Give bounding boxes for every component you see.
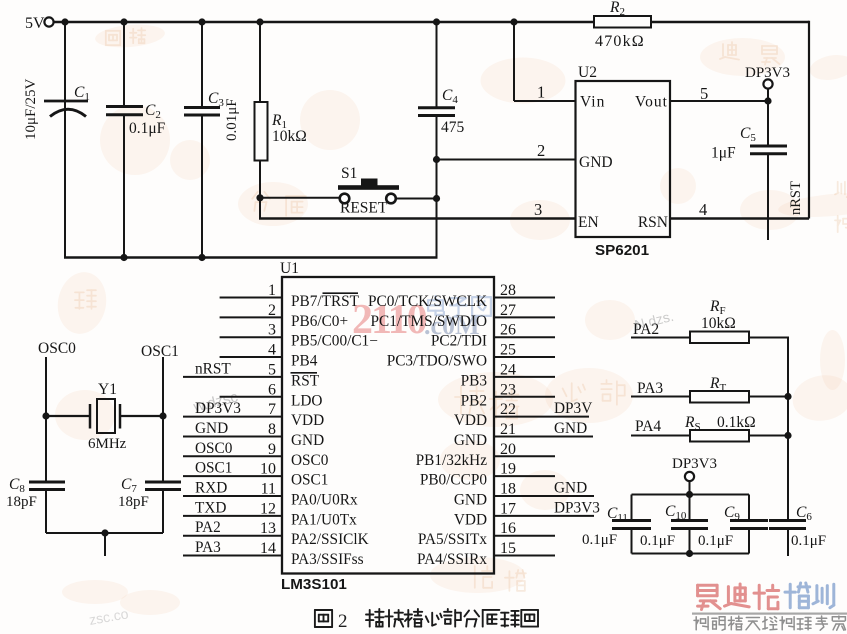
svg-text:1μF: 1μF (711, 145, 736, 162)
svg-text:PB7/TRST: PB7/TRST (291, 293, 360, 310)
wire bottom rail (64, 256, 438, 258)
svg-text:VDD: VDD (454, 412, 487, 429)
svg-text:PA2/SSIClK: PA2/SSIClK (291, 531, 369, 548)
node crystal gnd (101, 529, 108, 536)
svg-text:C1: C1 (74, 84, 90, 103)
caption: 图2 模块核心部分原理图 (315, 610, 332, 627)
svg-text:20: 20 (500, 441, 516, 458)
node rail-C2 (120, 18, 127, 25)
node bottomrail-C2 (120, 254, 127, 261)
svg-text:6MHz: 6MHz (88, 436, 127, 452)
wire OSC0 vertical (45, 357, 47, 482)
regulator U2 (576, 81, 671, 237)
svg-text:18: 18 (500, 481, 516, 498)
pin 1 PB7/TRST (220, 297, 282, 299)
pin 8 GND (183, 435, 282, 437)
pin 5 RST (183, 376, 282, 378)
capacitor C8 (29, 481, 65, 484)
svg-text:10kΩ: 10kΩ (701, 315, 736, 332)
svg-text:16: 16 (500, 520, 516, 537)
wire right edge drop (808, 21, 810, 219)
svg-text:2: 2 (268, 302, 276, 319)
svg-text:19: 19 (500, 461, 516, 478)
svg-text:R2: R2 (609, 0, 625, 18)
node S1-C4branch (433, 195, 440, 202)
node rail-C3 (198, 18, 205, 25)
wire cap bottom rail (632, 553, 750, 555)
node DP3V3-caprail (686, 491, 693, 498)
svg-text:PA0/U0Rx: PA0/U0Rx (291, 492, 358, 509)
svg-text:4: 4 (268, 342, 276, 359)
svg-text:PA4/SSIRx: PA4/SSIRx (417, 551, 487, 568)
wire pin1 Vin (513, 22, 515, 101)
svg-text:PA3: PA3 (637, 380, 663, 397)
svg-text:0.1μF: 0.1μF (129, 120, 166, 137)
svg-text:10μF/25V: 10μF/25V (23, 78, 39, 140)
svg-text:5: 5 (268, 361, 276, 378)
ground stub (104, 533, 106, 556)
svg-text:PA4: PA4 (635, 418, 661, 435)
svg-text:DP3V3: DP3V3 (672, 456, 717, 472)
resistor RT (690, 391, 749, 403)
svg-text:18pF: 18pF (6, 494, 37, 510)
svg-text:22: 22 (500, 401, 516, 418)
svg-text:Vin: Vin (580, 94, 605, 111)
svg-text:5V: 5V (25, 15, 45, 32)
svg-text:OSC1: OSC1 (195, 460, 232, 477)
svg-text:9: 9 (268, 441, 276, 458)
svg-text:TXD: TXD (195, 499, 226, 516)
pin 10 OSC1 (183, 475, 282, 477)
node C4-gnd2 (433, 156, 440, 163)
pin 18 GND (494, 495, 594, 497)
svg-text:EN: EN (578, 214, 599, 231)
svg-text:VDD: VDD (291, 412, 324, 429)
svg-text:0.1μF: 0.1μF (582, 532, 617, 548)
pin 22 VDD (494, 416, 589, 418)
svg-text:RS: RS (684, 414, 701, 433)
svg-text:25: 25 (500, 342, 516, 359)
svg-text:nRST: nRST (788, 181, 804, 215)
svg-text:PA5/SSITx: PA5/SSITx (418, 531, 488, 548)
svg-text:PA3: PA3 (195, 539, 221, 556)
svg-text:15: 15 (500, 540, 516, 557)
svg-text:PA3/SSIFss: PA3/SSIFss (291, 551, 364, 568)
svg-text:OSC1: OSC1 (141, 343, 179, 360)
wire top rail left (54, 21, 594, 23)
pin 13 PA2/SSIClK (183, 535, 282, 537)
pin 15 PA4/SSIRx (494, 555, 555, 557)
pin 16 PA5/SSITx (494, 535, 555, 537)
svg-text:7: 7 (268, 401, 276, 418)
pin 23 PB2 (494, 396, 555, 398)
svg-text:GND: GND (554, 480, 587, 497)
node rail-C4 (433, 18, 440, 25)
svg-text:S1: S1 (341, 165, 357, 182)
svg-text:DP3V: DP3V (554, 400, 592, 417)
pin 7 VDD (183, 416, 282, 418)
node rail-C1 (61, 18, 68, 25)
svg-text:OSC1: OSC1 (291, 472, 328, 489)
capacitor C2 (123, 22, 125, 107)
wire reset row (260, 197, 340, 199)
svg-text:U1: U1 (280, 260, 299, 277)
wire pin5 Vout (670, 100, 768, 102)
svg-text:21: 21 (500, 421, 516, 438)
svg-text:C3: C3 (208, 90, 224, 109)
svg-text:475: 475 (441, 119, 465, 136)
wire pin2 GND (437, 159, 576, 161)
svg-text:8: 8 (268, 421, 276, 438)
svg-text:2: 2 (338, 611, 348, 632)
svg-text:PA1/U0Tx: PA1/U0Tx (291, 511, 357, 528)
resistor RS (690, 430, 749, 442)
svg-text:C4: C4 (442, 87, 458, 106)
wire RF out (749, 337, 789, 339)
svg-text:1: 1 (268, 282, 276, 299)
capacitor C4 (436, 22, 438, 108)
svg-text:6: 6 (268, 381, 276, 398)
wire pin4 RSN (670, 217, 809, 219)
svg-text:PB3: PB3 (461, 372, 488, 389)
svg-text:24: 24 (500, 361, 516, 378)
capacitor C1 (64, 22, 66, 258)
wire cap top rail (632, 494, 750, 496)
wire OSC1 vertical (162, 357, 164, 482)
svg-text:GND: GND (454, 432, 487, 449)
node Vout-C5 (764, 97, 771, 104)
svg-text:PB1/32kHz: PB1/32kHz (416, 452, 488, 469)
svg-text:LM3S101: LM3S101 (281, 576, 347, 593)
pin 4 PB4 (220, 356, 282, 358)
svg-text:0.01μF: 0.01μF (224, 98, 240, 141)
svg-text:C2: C2 (145, 102, 161, 121)
pin 20 PB1/32kHz (494, 455, 555, 457)
pin 11 PA0/U0Rx (183, 495, 282, 497)
svg-text:C9: C9 (724, 504, 740, 523)
svg-text:Vout: Vout (635, 94, 668, 111)
svg-text:RST: RST (291, 372, 320, 389)
node rail-vin (510, 18, 517, 25)
node Y1 left (42, 412, 49, 419)
svg-text:PC1/TMS/SWDIO: PC1/TMS/SWDIO (371, 313, 487, 330)
svg-text:RT: RT (709, 375, 726, 394)
resistor R1 (259, 22, 261, 102)
svg-text:23: 23 (500, 381, 516, 398)
wire PA4 (631, 435, 690, 437)
svg-text:13: 13 (260, 520, 276, 537)
node Y1 right (159, 412, 166, 419)
svg-text:PB0/CCP0: PB0/CCP0 (420, 472, 488, 489)
pin 19 PB0/CCP0 (494, 475, 555, 477)
svg-text:Y1: Y1 (98, 381, 117, 398)
pin 28 PC0/TCK/SWCLK (494, 297, 555, 299)
svg-text:C8: C8 (9, 476, 25, 495)
resistor R2 (594, 16, 651, 28)
svg-text:LDO: LDO (291, 392, 322, 409)
svg-text:10: 10 (260, 461, 276, 478)
svg-text:28: 28 (500, 282, 516, 299)
svg-text:OSC0: OSC0 (195, 440, 233, 457)
pin 24 PB3 (494, 376, 555, 378)
pin 27 PC1/TMS/SWDIO (494, 316, 555, 318)
svg-text:PC3/TDO/SWO: PC3/TDO/SWO (387, 353, 487, 370)
wire PA2 (631, 337, 690, 339)
svg-text:OSC0: OSC0 (38, 340, 76, 357)
pin 12 PA1/U0Tx (183, 515, 282, 517)
svg-text:U2: U2 (578, 64, 597, 81)
svg-text:C11: C11 (607, 505, 628, 524)
pin 25 PC3/TDO/SWO (494, 356, 555, 358)
node RT join (784, 393, 791, 400)
wire RT out (749, 396, 789, 398)
svg-text:DP3V3: DP3V3 (554, 499, 600, 516)
svg-text:PB4: PB4 (291, 353, 318, 370)
svg-text:RESET: RESET (340, 200, 388, 217)
svg-text:GND: GND (579, 154, 613, 171)
svg-text:10kΩ: 10kΩ (272, 128, 307, 145)
svg-text:PC0/TCK/SWCLK: PC0/TCK/SWCLK (368, 293, 487, 310)
svg-text:PA2: PA2 (633, 321, 659, 338)
svg-text:12: 12 (260, 500, 276, 517)
pin 26 PC2/TDI (494, 336, 555, 338)
svg-text:C6: C6 (796, 504, 812, 523)
svg-text:OSC0: OSC0 (291, 452, 329, 469)
wire pin3 EN (259, 217, 576, 220)
pin 2 PB6/C0+ (220, 316, 282, 318)
node R1-reset (256, 194, 263, 201)
svg-text:0.1μF: 0.1μF (791, 533, 826, 549)
node bottomrail-C3 (198, 254, 205, 261)
capacitor C6 (769, 519, 806, 522)
wire RS out (749, 435, 789, 437)
capacitor C5 (767, 101, 769, 146)
mcu U1 body (282, 277, 494, 574)
svg-text:17: 17 (500, 500, 516, 517)
svg-text:PB2: PB2 (461, 392, 487, 409)
svg-text:nRST: nRST (195, 360, 231, 377)
svg-text:PA2: PA2 (195, 519, 221, 536)
resistor RF (690, 332, 749, 344)
crystal Y1 (46, 415, 90, 417)
svg-text:C10: C10 (665, 503, 687, 522)
svg-text:26: 26 (500, 322, 516, 339)
svg-text:27: 27 (500, 302, 516, 319)
svg-text:PB6/C0+: PB6/C0+ (291, 313, 348, 330)
svg-text:18pF: 18pF (118, 494, 149, 510)
svg-text:GND: GND (454, 492, 487, 509)
capacitor C11 (631, 495, 633, 521)
svg-text:470kΩ: 470kΩ (595, 33, 645, 50)
pin 14 PA3/SSIFss (183, 555, 282, 557)
capacitor C7 (145, 481, 181, 484)
capacitor C3 (201, 22, 203, 108)
svg-text:GND: GND (195, 420, 228, 437)
svg-text:11: 11 (261, 481, 276, 498)
pin 6 LDO (220, 396, 282, 398)
svg-text:0.1μF: 0.1μF (640, 533, 675, 549)
svg-text:GND: GND (554, 420, 587, 437)
capacitor C10 (689, 495, 691, 521)
svg-text:zsc.co: zsc.co (88, 605, 130, 628)
svg-text:0.1kΩ: 0.1kΩ (717, 414, 756, 431)
svg-text:1: 1 (537, 83, 545, 102)
node cap bottom (686, 550, 693, 557)
svg-text:SP6201: SP6201 (595, 242, 650, 259)
svg-text:C5: C5 (740, 125, 756, 144)
pin 9 OSC0 (183, 455, 282, 457)
svg-text:C7: C7 (121, 476, 137, 495)
wire PA3 (631, 396, 690, 398)
svg-text:RSN: RSN (638, 214, 668, 231)
node rail-R1 (256, 18, 263, 25)
pin 17 VDD (494, 515, 594, 517)
pin 3 PB5/C00/C1&#8722; (220, 336, 282, 338)
wire crystal bottom (46, 532, 163, 534)
svg-text:PC2/TDI: PC2/TDI (431, 333, 487, 350)
svg-text:4: 4 (699, 200, 707, 219)
svg-text:GND: GND (291, 432, 324, 449)
capacitor C9 (748, 495, 750, 521)
svg-text:14: 14 (260, 540, 276, 557)
svg-text:DP3V3: DP3V3 (195, 400, 241, 417)
svg-text:PB5/C00/C1−: PB5/C00/C1− (291, 333, 378, 350)
svg-text:RXD: RXD (195, 480, 227, 497)
pin 21 GND (494, 435, 593, 437)
watermark logo bottom-right (698, 585, 721, 609)
wire right bus vertical (787, 338, 789, 521)
svg-text:3: 3 (534, 200, 542, 219)
svg-text:2: 2 (537, 141, 545, 160)
svg-text:3: 3 (268, 322, 276, 339)
svg-text:5: 5 (700, 84, 708, 103)
wire top rail right (651, 21, 809, 23)
svg-text:0.1μF: 0.1μF (698, 533, 733, 549)
node RS join (784, 432, 791, 439)
svg-text:VDD: VDD (454, 511, 487, 528)
